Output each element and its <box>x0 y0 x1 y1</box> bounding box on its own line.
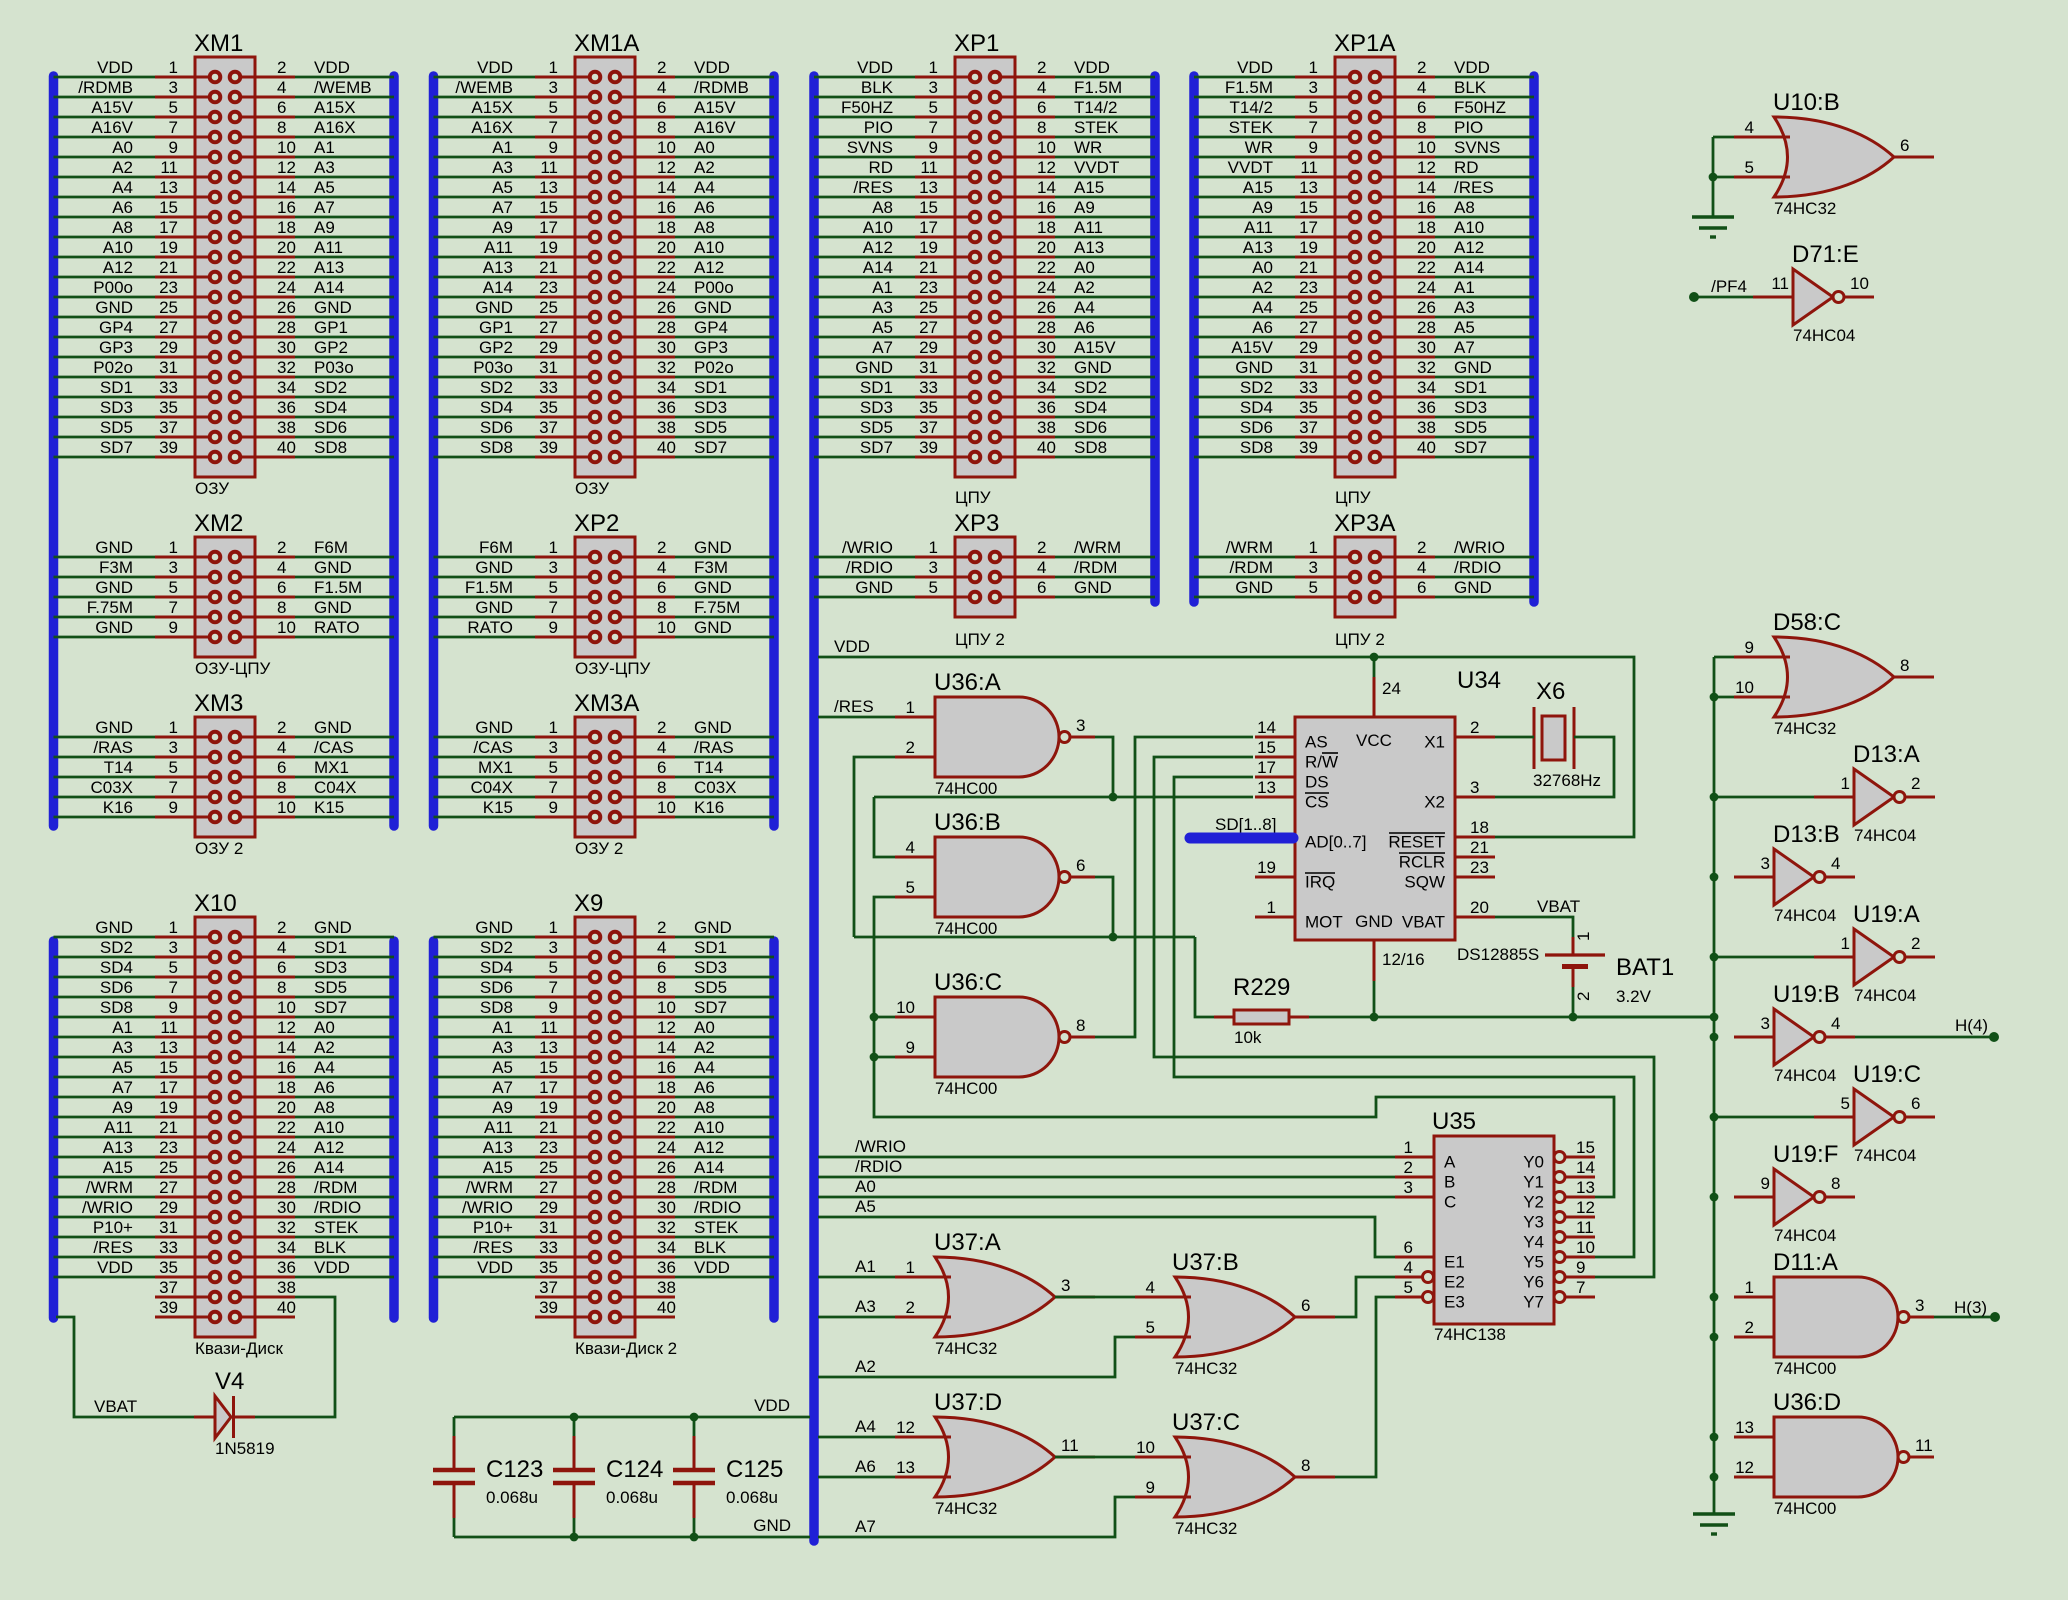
svg-text:SD3: SD3 <box>314 958 347 977</box>
wire XP1 pin 37 <box>814 436 915 439</box>
svg-text:2: 2 <box>1404 1158 1413 1177</box>
svg-text:A6: A6 <box>694 198 715 217</box>
svg-text:32: 32 <box>657 358 676 377</box>
svg-text:A1: A1 <box>492 1018 513 1037</box>
svg-text:2: 2 <box>1911 934 1920 953</box>
svg-text:A3: A3 <box>492 158 513 177</box>
svg-text:17: 17 <box>1257 758 1276 777</box>
svg-text:26: 26 <box>1417 298 1436 317</box>
svg-text:A2: A2 <box>112 158 133 177</box>
svg-text:24: 24 <box>1037 278 1056 297</box>
svg-text:F6M: F6M <box>479 538 513 557</box>
svg-text:30: 30 <box>657 1198 676 1217</box>
NAND gate D11:A <box>1734 1249 1934 1378</box>
wire XP1A pin 40 <box>1435 456 1534 459</box>
svg-text:26: 26 <box>277 298 296 317</box>
svg-text:6: 6 <box>277 578 286 597</box>
wire XP1A pin 28 <box>1435 336 1534 339</box>
svg-text:GND: GND <box>95 718 133 737</box>
svg-text:33: 33 <box>159 1238 178 1257</box>
svg-text:SD3: SD3 <box>860 398 893 417</box>
svg-text:32: 32 <box>1037 358 1056 377</box>
svg-text:P03o: P03o <box>473 358 513 377</box>
svg-text:74HC04: 74HC04 <box>1854 1146 1916 1165</box>
svg-text:A12: A12 <box>694 258 724 277</box>
svg-text:C124: C124 <box>606 1456 663 1483</box>
svg-text:U36:C: U36:C <box>934 969 1002 996</box>
svg-text:29: 29 <box>159 1198 178 1217</box>
svg-text:5: 5 <box>169 98 178 117</box>
svg-text:29: 29 <box>539 1198 558 1217</box>
wire XP1A pin 14 <box>1435 196 1534 199</box>
ground (trunk) <box>1693 1514 1735 1534</box>
svg-text:Квази-Диск 2: Квази-Диск 2 <box>575 1339 677 1358</box>
svg-text:24: 24 <box>657 1138 676 1157</box>
svg-text:40: 40 <box>1037 438 1056 457</box>
svg-text:XM3: XM3 <box>194 690 243 717</box>
wire XM3A pin 10 <box>675 816 774 819</box>
wire X9 pin 29 <box>434 1216 536 1219</box>
svg-text:2: 2 <box>906 738 915 757</box>
svg-text:A15V: A15V <box>1074 338 1116 357</box>
svg-text:ЦПУ 2: ЦПУ 2 <box>955 630 1005 649</box>
svg-text:74HC138: 74HC138 <box>1434 1325 1506 1344</box>
capacitor C124 <box>553 1417 663 1537</box>
svg-text:14: 14 <box>657 178 676 197</box>
svg-text:39: 39 <box>539 438 558 457</box>
svg-text:1: 1 <box>1841 774 1850 793</box>
svg-text:1: 1 <box>169 718 178 737</box>
svg-text:SD5: SD5 <box>1454 418 1487 437</box>
svg-text:C: C <box>1444 1193 1456 1212</box>
junction <box>1710 1033 1719 1042</box>
wire U37:C.8 to E3 <box>1335 1297 1395 1477</box>
wire XP1A pin 3 <box>1194 96 1295 99</box>
wire XM3A pin 1 <box>434 736 536 739</box>
svg-text:6: 6 <box>1037 578 1046 597</box>
svg-text:31: 31 <box>539 358 558 377</box>
svg-text:A5: A5 <box>1454 318 1475 337</box>
svg-text:11: 11 <box>1061 1436 1079 1455</box>
wire trunk to U19:A <box>1714 956 1814 959</box>
wire U37:A.3 to U37:B.4 <box>1055 1296 1135 1299</box>
svg-text:9: 9 <box>1576 1258 1585 1277</box>
svg-text:PIO: PIO <box>1454 118 1483 137</box>
svg-text:SVNS: SVNS <box>847 138 893 157</box>
svg-text:Y3: Y3 <box>1523 1213 1544 1232</box>
svg-text:3: 3 <box>1061 1276 1070 1295</box>
wire XM3 pin 8 <box>295 796 394 799</box>
wire XM1A pin 40 <box>675 456 774 459</box>
svg-text:A1: A1 <box>1454 278 1475 297</box>
junction <box>1710 793 1719 802</box>
junction <box>690 1533 699 1542</box>
junction <box>690 1413 699 1422</box>
svg-text:A10: A10 <box>863 218 893 237</box>
svg-text:A5: A5 <box>314 178 335 197</box>
svg-text:5: 5 <box>549 758 558 777</box>
svg-text:GND: GND <box>314 298 352 317</box>
svg-text:28: 28 <box>657 1178 676 1197</box>
svg-text:BAT1: BAT1 <box>1616 954 1674 981</box>
node /RES <box>818 716 895 719</box>
wire GND pin to net <box>1373 981 1376 1017</box>
svg-text:IRQ: IRQ <box>1305 873 1335 892</box>
svg-text:GND: GND <box>475 718 513 737</box>
svg-text:36: 36 <box>657 398 676 417</box>
wire VDD rail <box>818 657 1634 837</box>
svg-text:0.068u: 0.068u <box>726 1488 778 1507</box>
wire battery to net <box>1572 987 1575 1017</box>
node A1 <box>818 1276 895 1279</box>
svg-text:15: 15 <box>539 1058 558 1077</box>
svg-text:GP1: GP1 <box>314 318 348 337</box>
svg-text:F50HZ: F50HZ <box>1454 98 1506 117</box>
svg-text:35: 35 <box>919 398 938 417</box>
svg-text:A0: A0 <box>694 138 715 157</box>
svg-text:XM1: XM1 <box>194 30 243 57</box>
svg-text:3: 3 <box>1915 1296 1924 1315</box>
wire trunk to D13:A <box>1714 796 1814 799</box>
svg-text:74HC32: 74HC32 <box>935 1499 997 1518</box>
svg-text:A14: A14 <box>314 278 344 297</box>
svg-text:3: 3 <box>169 738 178 757</box>
wire diode cathode to X10 pin 38 <box>255 1297 335 1417</box>
svg-text:34: 34 <box>657 378 676 397</box>
wire XM1A pin 34 <box>675 396 774 399</box>
svg-text:74HC04: 74HC04 <box>1854 826 1916 845</box>
svg-text:9: 9 <box>549 618 558 637</box>
NAND gate U36:D <box>1734 1389 1934 1518</box>
wire XP1 pin 34 <box>1055 396 1155 399</box>
svg-text:T14/2: T14/2 <box>1230 98 1273 117</box>
wire XP1 pin 23 <box>814 296 915 299</box>
svg-text:F.75M: F.75M <box>694 598 740 617</box>
svg-text:1N5819: 1N5819 <box>215 1439 275 1458</box>
svg-text:19: 19 <box>539 1098 558 1117</box>
wire X9 pin 3 <box>434 956 536 959</box>
svg-text:A11: A11 <box>484 1118 513 1137</box>
wire XP1 pin 4 <box>1055 96 1155 99</box>
wire X9 pin 24 <box>675 1156 774 1159</box>
svg-text:32768Hz: 32768Hz <box>1533 771 1601 790</box>
svg-text:37: 37 <box>159 1278 178 1297</box>
wire XM2 pin 3 <box>54 576 156 579</box>
svg-text:7: 7 <box>929 118 938 137</box>
svg-text:8: 8 <box>1417 118 1426 137</box>
svg-text:28: 28 <box>1037 318 1056 337</box>
svg-text:6: 6 <box>1301 1296 1310 1315</box>
svg-text:8: 8 <box>657 978 666 997</box>
wire XP3A pin 4 <box>1435 576 1534 579</box>
wire X9 pin 13 <box>434 1056 536 1059</box>
svg-text:5: 5 <box>1841 1094 1850 1113</box>
svg-text:9: 9 <box>1146 1478 1155 1497</box>
svg-text:18: 18 <box>657 218 676 237</box>
capacitor C123 <box>433 1417 543 1537</box>
wire X9 pin 21 <box>434 1136 536 1139</box>
wire XM2 pin 10 <box>295 636 394 639</box>
svg-text:A8: A8 <box>112 218 133 237</box>
wire XM1 pin 37 <box>54 436 156 439</box>
wire to U36:C.9 <box>874 1056 895 1059</box>
svg-text:17: 17 <box>159 218 178 237</box>
wire X9 pin 2 <box>675 936 774 939</box>
wire X10 pin 28 <box>295 1196 394 1199</box>
svg-text:A8: A8 <box>694 1098 715 1117</box>
wire XM1A pin 5 <box>434 116 536 119</box>
svg-text:GND: GND <box>1355 912 1393 931</box>
svg-text:13: 13 <box>1257 778 1276 797</box>
svg-text:D13:A: D13:A <box>1853 741 1920 768</box>
svg-text:X9: X9 <box>574 890 603 917</box>
wire XM1A pin 12 <box>675 176 774 179</box>
wire XM1 pin 34 <box>295 396 394 399</box>
svg-text:A11: A11 <box>314 238 343 257</box>
wire X9 pin 26 <box>675 1176 774 1179</box>
svg-text:6: 6 <box>1037 98 1046 117</box>
wire bus to diode anode <box>56 1317 194 1417</box>
svg-text:26: 26 <box>1037 298 1056 317</box>
svg-text:14: 14 <box>1257 718 1276 737</box>
svg-text:24: 24 <box>657 278 676 297</box>
junction <box>1710 1013 1719 1022</box>
svg-text:37: 37 <box>159 418 178 437</box>
svg-text:28: 28 <box>657 318 676 337</box>
junction <box>1710 1113 1719 1122</box>
wire XM1A pin 29 <box>434 356 536 359</box>
wire XM2 pin 4 <box>295 576 394 579</box>
wire XP1 pin 30 <box>1055 356 1155 359</box>
svg-text:2: 2 <box>1574 992 1593 1001</box>
svg-text:19: 19 <box>1257 858 1276 877</box>
svg-text:31: 31 <box>919 358 938 377</box>
svg-text:BLK: BLK <box>1454 78 1487 97</box>
connector XP2 <box>465 510 740 678</box>
svg-text:28: 28 <box>277 318 296 337</box>
wire XP1A pin 13 <box>1194 196 1295 199</box>
wire XP1A pin 34 <box>1435 396 1534 399</box>
svg-text:8: 8 <box>277 598 286 617</box>
svg-text:27: 27 <box>919 318 938 337</box>
wire XM1 pin 11 <box>54 176 156 179</box>
svg-text:27: 27 <box>539 318 558 337</box>
svg-text:/WRIO: /WRIO <box>842 538 893 557</box>
wire X9 pin 33 <box>434 1256 536 1259</box>
resistor R229 <box>1214 974 1309 1047</box>
svg-text:/CAS: /CAS <box>473 738 513 757</box>
svg-text:WR: WR <box>1245 138 1273 157</box>
svg-text:A2: A2 <box>1074 278 1095 297</box>
svg-text:5: 5 <box>169 758 178 777</box>
junction <box>1109 933 1118 942</box>
wire XM1A pin 17 <box>434 236 536 239</box>
svg-text:10: 10 <box>657 138 676 157</box>
wire X10 pin 18 <box>295 1096 394 1099</box>
svg-text:A7: A7 <box>492 198 513 217</box>
svg-text:U37:B: U37:B <box>1172 1249 1239 1276</box>
wire XM1 pin 30 <box>295 356 394 359</box>
svg-text:20: 20 <box>1470 898 1489 917</box>
svg-text:E2: E2 <box>1444 1273 1465 1292</box>
svg-text:P10+: P10+ <box>93 1218 133 1237</box>
junction <box>1710 1433 1719 1442</box>
svg-text:6: 6 <box>657 958 666 977</box>
svg-text:14: 14 <box>277 1038 296 1057</box>
wire VDD cap rail <box>454 1416 810 1419</box>
svg-text:22: 22 <box>1417 258 1436 277</box>
wire to U36:C.10 <box>874 1016 895 1019</box>
svg-text:1: 1 <box>929 58 938 77</box>
wire XP1A pin 7 <box>1194 136 1295 139</box>
OR gate U10:B <box>1734 89 1934 218</box>
svg-text:Y1: Y1 <box>1523 1173 1544 1192</box>
svg-text:10: 10 <box>277 998 296 1017</box>
svg-text:4: 4 <box>277 738 286 757</box>
wire XM2 pin 6 <box>295 596 394 599</box>
svg-text:C04X: C04X <box>314 778 357 797</box>
svg-text:AD[0..7]: AD[0..7] <box>1305 833 1366 852</box>
svg-text:ЦПУ: ЦПУ <box>955 488 991 507</box>
svg-text:8: 8 <box>277 978 286 997</box>
svg-text:A1: A1 <box>492 138 513 157</box>
wire XM1A pin 11 <box>434 176 536 179</box>
svg-text:2: 2 <box>906 1298 915 1317</box>
svg-text:VDD: VDD <box>1074 58 1110 77</box>
wire XM1 pin 8 <box>295 136 394 139</box>
wire X9 pin 36 <box>675 1276 774 1279</box>
svg-text:19: 19 <box>919 238 938 257</box>
wire X9 pin 17 <box>434 1096 536 1099</box>
svg-text:U34: U34 <box>1457 667 1501 694</box>
wire X9 pin 23 <box>434 1156 536 1159</box>
wire XP1 pin 14 <box>1055 196 1155 199</box>
node A7 <box>818 1497 1135 1537</box>
svg-text:A6: A6 <box>112 198 133 217</box>
svg-text:VDD: VDD <box>834 637 870 656</box>
svg-text:11: 11 <box>540 1018 558 1037</box>
svg-text:GND: GND <box>314 598 352 617</box>
wire X10 pin 36 <box>295 1276 394 1279</box>
svg-text:12: 12 <box>1417 158 1436 177</box>
svg-text:/RDIO: /RDIO <box>846 558 893 577</box>
wire XM1A pin 18 <box>675 236 774 239</box>
wire X9 pin 14 <box>675 1056 774 1059</box>
svg-text:Y2: Y2 <box>1523 1193 1544 1212</box>
svg-text:2: 2 <box>657 918 666 937</box>
svg-text:20: 20 <box>277 238 296 257</box>
svg-text:F.75M: F.75M <box>87 598 133 617</box>
svg-text:RESET: RESET <box>1388 833 1445 852</box>
wire XP1A pin 39 <box>1194 456 1295 459</box>
wire X10 pin 11 <box>54 1036 156 1039</box>
wire X9 pin 20 <box>675 1116 774 1119</box>
svg-text:A2: A2 <box>1252 278 1273 297</box>
svg-text:T14: T14 <box>694 758 723 777</box>
svg-text:F3M: F3M <box>694 558 728 577</box>
wire X9 pin 6 <box>675 976 774 979</box>
wire X10 pin 3 <box>54 956 156 959</box>
svg-text:36: 36 <box>657 1258 676 1277</box>
svg-text:3: 3 <box>549 558 558 577</box>
wire XP1 pin 3 <box>814 96 915 99</box>
svg-text:/RDIO: /RDIO <box>694 1198 741 1217</box>
svg-text:/RES: /RES <box>473 1238 513 1257</box>
svg-text:A6: A6 <box>1074 318 1095 337</box>
svg-text:10: 10 <box>1136 1438 1155 1457</box>
wire X10 pin 4 <box>295 956 394 959</box>
svg-text:A3: A3 <box>1454 298 1475 317</box>
svg-text:9: 9 <box>169 798 178 817</box>
svg-text:12: 12 <box>1037 158 1056 177</box>
svg-text:10: 10 <box>896 998 915 1017</box>
wire XP3 pin 1 <box>814 556 915 559</box>
svg-text:SD6: SD6 <box>314 418 347 437</box>
svg-text:A5: A5 <box>492 1058 513 1077</box>
svg-text:11: 11 <box>1300 158 1318 177</box>
svg-text:1: 1 <box>906 698 915 717</box>
svg-text:A10: A10 <box>694 1118 724 1137</box>
svg-text:GND: GND <box>475 298 513 317</box>
svg-text:29: 29 <box>919 338 938 357</box>
svg-text:5: 5 <box>1309 98 1318 117</box>
wire trunk net <box>1713 657 1716 1514</box>
svg-text:4: 4 <box>277 938 286 957</box>
svg-text:SD8: SD8 <box>480 438 513 457</box>
junction <box>1710 1193 1719 1202</box>
svg-text:3: 3 <box>169 938 178 957</box>
svg-text:STEK: STEK <box>694 1218 739 1237</box>
svg-text:37: 37 <box>1299 418 1318 437</box>
svg-text:29: 29 <box>539 338 558 357</box>
svg-text:A15X: A15X <box>314 98 356 117</box>
wire XP1A pin 27 <box>1194 336 1295 339</box>
svg-text:A8: A8 <box>314 1098 335 1117</box>
wire VCC to VDD <box>1373 657 1376 677</box>
svg-text:33: 33 <box>539 378 558 397</box>
svg-text:Y5: Y5 <box>1523 1253 1544 1272</box>
svg-text:A9: A9 <box>314 218 335 237</box>
svg-text:BLK: BLK <box>314 1238 347 1257</box>
IC U35 74HC138 <box>1395 1108 1595 1344</box>
svg-text:/RDIO: /RDIO <box>314 1198 361 1217</box>
svg-text:2: 2 <box>1911 774 1920 793</box>
svg-text:33: 33 <box>159 378 178 397</box>
svg-text:40: 40 <box>1417 438 1436 457</box>
svg-text:36: 36 <box>277 1258 296 1277</box>
svg-text:GND: GND <box>314 558 352 577</box>
svg-text:SD4: SD4 <box>480 398 513 417</box>
wire X10 pin 30 <box>295 1216 394 1219</box>
svg-text:14: 14 <box>1037 178 1056 197</box>
svg-text:A4: A4 <box>314 1058 335 1077</box>
svg-text:GND: GND <box>855 358 893 377</box>
wire XP1 pin 24 <box>1055 296 1155 299</box>
svg-text:3: 3 <box>929 78 938 97</box>
svg-text:A1: A1 <box>112 1018 133 1037</box>
svg-text:A0: A0 <box>694 1018 715 1037</box>
svg-text:A4: A4 <box>112 178 133 197</box>
svg-text:16: 16 <box>277 1058 296 1077</box>
wire XM1A pin 9 <box>434 156 536 159</box>
svg-text:22: 22 <box>277 258 296 277</box>
svg-text:37: 37 <box>539 418 558 437</box>
svg-text:A5: A5 <box>855 1197 876 1216</box>
wire XM3 pin 10 <box>295 816 394 819</box>
svg-text:U36:B: U36:B <box>934 809 1001 836</box>
wire XP1 pin 1 <box>814 76 915 79</box>
svg-text:18: 18 <box>277 1078 296 1097</box>
